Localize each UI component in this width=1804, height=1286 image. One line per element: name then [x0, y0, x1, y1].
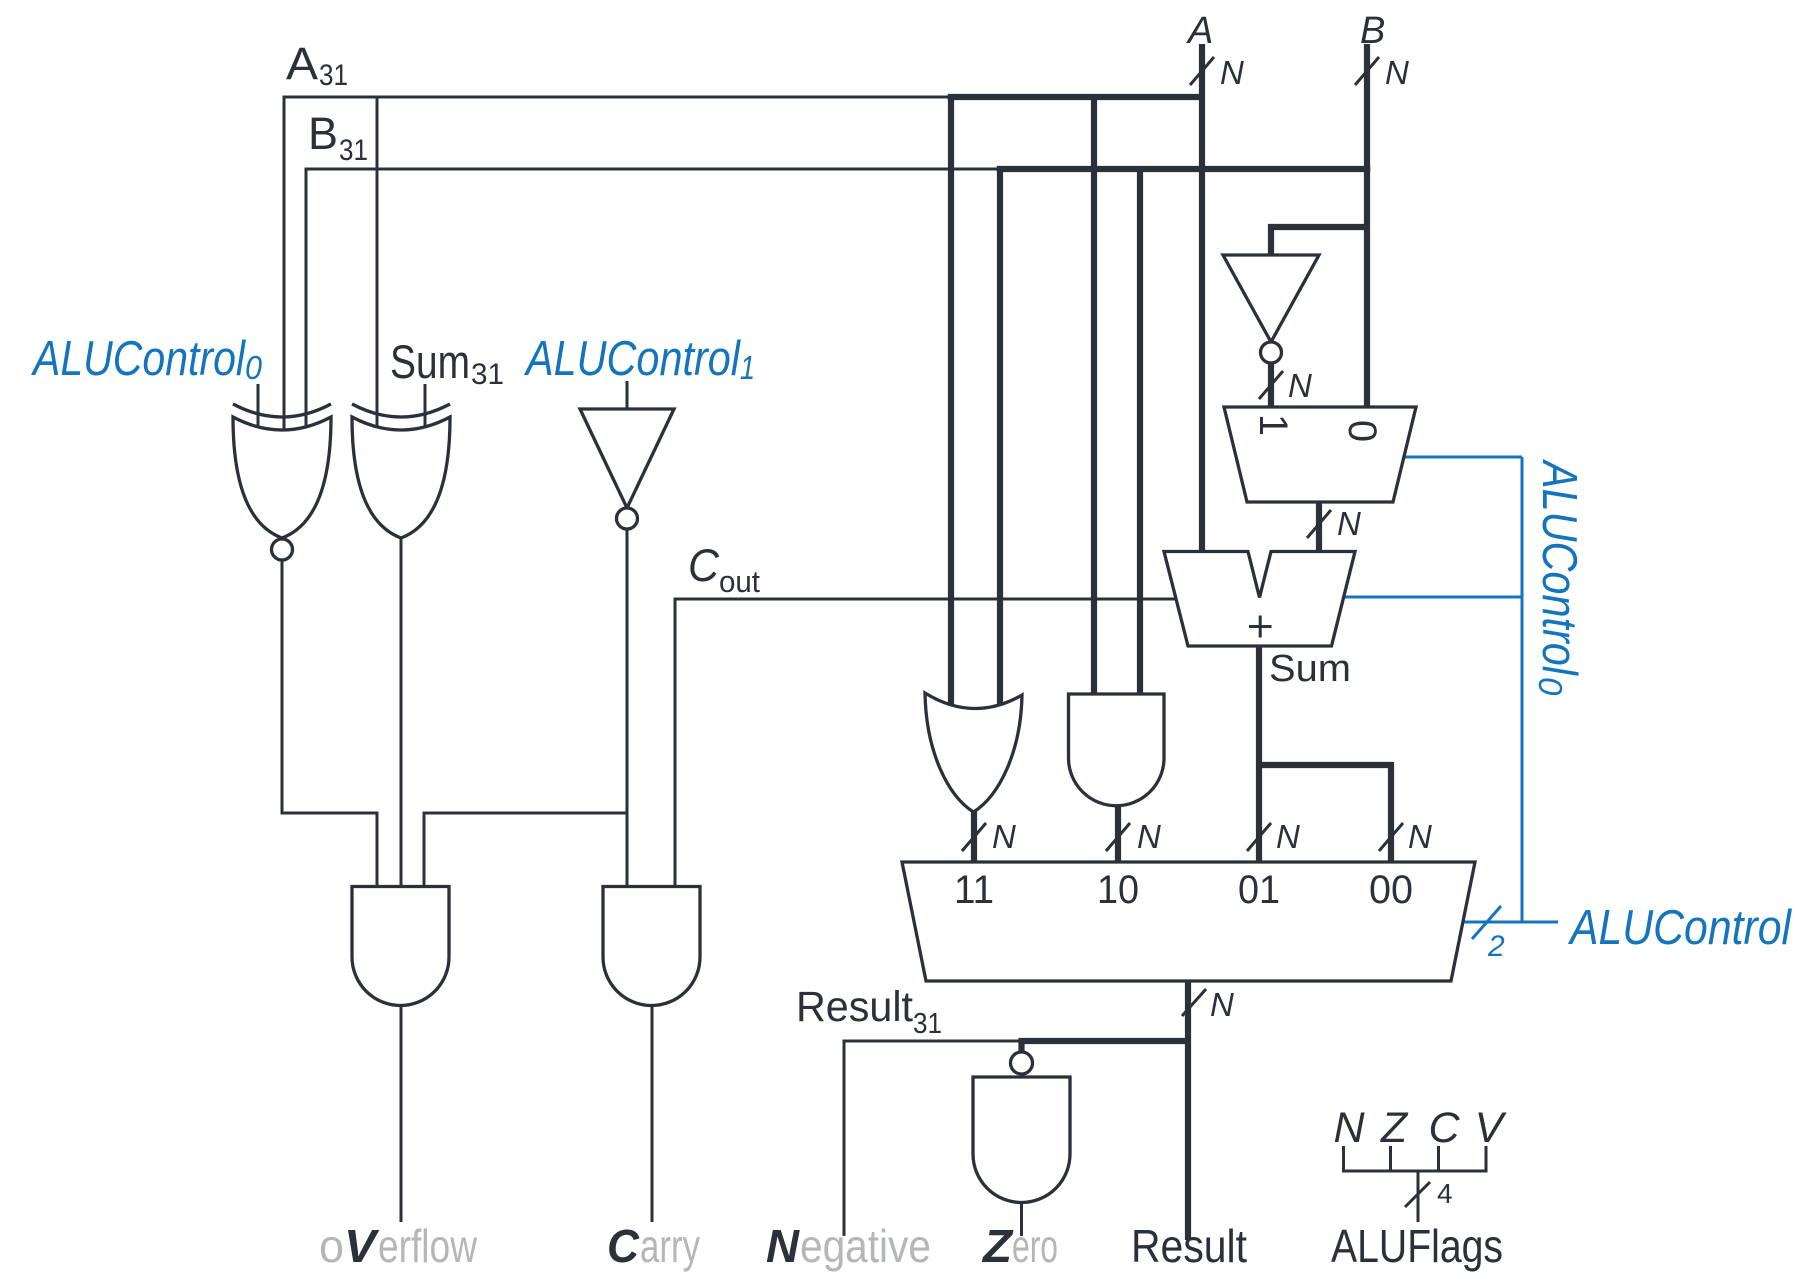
svg-text:N: N [1288, 367, 1312, 404]
wire NOT B to mux [1268, 364, 1274, 409]
svg-text:01: 01 [1238, 868, 1280, 912]
wire ALUControl blue vertical [1521, 457, 1524, 922]
svg-text:o: o [319, 1220, 344, 1272]
wire bus A branch to AND [1091, 97, 1097, 696]
wire ALUControl0 stub [257, 384, 260, 440]
svg-text:Result: Result [796, 984, 913, 1031]
ALUFlags combiner bar [1342, 1170, 1488, 1173]
svg-text:N: N [1337, 505, 1361, 542]
nor gate G9 Zero body [973, 1077, 1070, 1203]
svg-text:1: 1 [1251, 414, 1295, 436]
wire oVerflow output [400, 1006, 403, 1222]
inverter U4 triangle [1223, 255, 1319, 342]
slash N on mux input 01 [1247, 823, 1271, 851]
wire OR gate output [971, 810, 977, 864]
svg-text:4: 4 [1437, 1178, 1453, 1209]
svg-text:N: N [1276, 818, 1300, 855]
svg-text:0: 0 [1532, 677, 1569, 696]
wire bus A vertical [1199, 44, 1205, 553]
svg-text:ALUFlags: ALUFlags [1331, 1220, 1503, 1272]
svg-text:erflow: erflow [378, 1220, 478, 1272]
ALUFlags combiner Z stub [1389, 1146, 1392, 1173]
wire BB mux output to adder [1316, 500, 1322, 553]
wire ALUControl to result mux select [1463, 921, 1558, 924]
svg-text:egative: egative [800, 1220, 931, 1272]
and gate G7 oVerflow body [352, 887, 449, 1006]
svg-text:2: 2 [1487, 930, 1505, 963]
svg-text:31: 31 [319, 59, 348, 92]
svg-text:0: 0 [1340, 420, 1384, 442]
wire bus B horizontal [997, 166, 1371, 172]
svg-text:1: 1 [740, 349, 755, 386]
wire Result31 tap [844, 1041, 1021, 1236]
ALUFlags combiner C stub [1437, 1146, 1440, 1173]
xor gate G2 input arc [352, 404, 450, 417]
svg-text:B: B [1360, 10, 1385, 52]
wire bus A branch to OR [948, 97, 954, 707]
inverter U4 bubble [1261, 342, 1282, 363]
inverter U3 triangle [580, 409, 674, 508]
adder plus sign [1249, 616, 1272, 638]
svg-text:Result: Result [1131, 1220, 1247, 1272]
ALUFlags output wire [1417, 1171, 1420, 1222]
wire Sum [1256, 644, 1262, 864]
wire AND gate output [1115, 804, 1121, 864]
nor gate G9 input bubble [1011, 1052, 1033, 1074]
svg-text:V: V [1475, 1104, 1508, 1152]
ALUFlags combiner V stub [1485, 1146, 1488, 1173]
wire XOR output [400, 536, 403, 888]
svg-text:31: 31 [913, 1008, 942, 1040]
wire bus B branch to OR [997, 169, 1003, 709]
svg-text:11: 11 [954, 868, 994, 912]
svg-text:10: 10 [1097, 868, 1139, 912]
svg-text:Z: Z [1380, 1104, 1409, 1152]
svg-text:A: A [286, 38, 318, 89]
mux M2 result 4:1 trapezoid [902, 862, 1475, 981]
wire A31 branch to XOR [376, 97, 379, 445]
svg-text:N: N [766, 1220, 800, 1272]
slash 2 on ALUControl [1472, 906, 1501, 939]
wire bus A horizontal [948, 94, 1202, 100]
svg-text:N: N [1333, 1104, 1365, 1152]
slash N on OR out [962, 823, 986, 851]
svg-text:C: C [607, 1220, 640, 1272]
svg-text:B: B [308, 108, 338, 159]
svg-text:N: N [1210, 986, 1234, 1023]
svg-text:N: N [1408, 818, 1432, 855]
svg-text:ALUControl: ALUControl [523, 332, 740, 386]
xnor gate G1 body [233, 417, 331, 538]
svg-text:C: C [688, 540, 719, 591]
wire B31 net [306, 169, 1002, 445]
svg-text:Sum: Sum [1269, 648, 1351, 690]
slash N on NOT B [1259, 371, 1283, 399]
slash N on BB [1307, 510, 1331, 538]
wire A31 net [284, 97, 953, 445]
wire Result vertical [1185, 979, 1191, 1240]
slash N on mux input 00 [1379, 823, 1403, 851]
wire ALUControl0 to adder carry-in [1344, 596, 1522, 599]
wire Result bit31 thick branch [1022, 1041, 1189, 1052]
xnor gate G1 bubble [272, 539, 293, 560]
slash N on A [1190, 57, 1214, 85]
and gate G6 body [1069, 694, 1165, 806]
adder body [1164, 552, 1355, 647]
wire Sum31 stub [424, 384, 427, 440]
svg-text:ero: ero [1012, 1220, 1058, 1272]
svg-text:00: 00 [1369, 868, 1413, 912]
xnor gate G1 input arc [233, 404, 331, 417]
svg-text:31: 31 [471, 358, 504, 391]
wire bus B branch to inverter U4 [1271, 227, 1367, 255]
svg-text:V: V [344, 1220, 379, 1272]
svg-text:ALUControl: ALUControl [1567, 901, 1792, 955]
svg-text:A: A [1186, 10, 1213, 52]
svg-text:arry: arry [640, 1220, 700, 1272]
ALUFlags combiner N stub [1342, 1146, 1345, 1173]
wire bus B branch to AND [1137, 169, 1143, 696]
wire Cout [675, 599, 1175, 888]
or gate G5 body [925, 693, 1022, 812]
wire ALUControl1 stub [626, 381, 629, 412]
wire Zero output [1020, 1203, 1023, 1236]
mux M1 2:1 trapezoid [1224, 407, 1416, 502]
slash N on B [1355, 57, 1379, 85]
svg-text:N: N [1385, 54, 1409, 91]
wire inverter U3 output [626, 528, 629, 888]
slash N on AND out [1106, 823, 1130, 851]
xor gate G2 body [352, 417, 450, 538]
slash 4 on ALUFlags [1405, 1182, 1430, 1207]
inverter U3 bubble [617, 508, 638, 529]
and gate G8 Carry body [603, 887, 700, 1006]
svg-text:out: out [719, 564, 760, 599]
wire XNOR output jog [282, 560, 377, 888]
svg-text:N: N [1220, 54, 1244, 91]
svg-text:ALUControl: ALUControl [30, 332, 245, 386]
wire bus B vertical [1364, 44, 1370, 409]
wire NOT ALUControl1 branch [424, 813, 627, 888]
svg-text:0: 0 [245, 349, 263, 386]
svg-text:31: 31 [339, 134, 368, 167]
svg-text:N: N [992, 818, 1016, 855]
svg-text:N: N [1137, 818, 1161, 855]
wire Carry output [651, 1006, 654, 1222]
wire Sum branch to mux input 00 [1259, 765, 1391, 864]
svg-text:Z: Z [981, 1220, 1014, 1272]
svg-text:Sum: Sum [390, 335, 470, 388]
wire ALUControl0 to 2:1 mux select [1403, 456, 1522, 459]
svg-text:C: C [1428, 1104, 1460, 1152]
svg-text:ALUControl: ALUControl [1532, 458, 1586, 675]
slash N on Result [1182, 989, 1206, 1016]
